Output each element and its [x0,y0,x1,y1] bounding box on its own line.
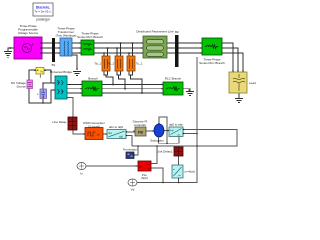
svg-text:(Two Windings): (Two Windings) [56,34,77,38]
svg-text:Voltage Source: Voltage Source [18,31,39,35]
svg-text:Series RLC Branch: Series RLC Branch [77,35,103,39]
svg-text:Branch: Branch [88,77,98,81]
svg-text:(2-Level): (2-Level) [88,124,100,128]
svg-text:Universal Bridge: Universal Bridge [50,70,72,74]
svg-text:B1: B1 [52,63,56,67]
svg-text:m: m [173,169,175,171]
svg-text:Unit Delay1: Unit Delay1 [157,150,173,154]
svg-text:In: In [80,172,83,176]
svg-text:Ta_1: Ta_1 [94,62,101,66]
svg-text:(3ph): (3ph) [141,176,148,180]
svg-text:m=f(ud): m=f(ud) [185,170,195,174]
svg-text:PID: PID [138,131,144,135]
svg-text:Saturation: Saturation [150,138,164,142]
svg-text:Series RLC Branch: Series RLC Branch [199,61,225,65]
svg-text:Load: Load [249,81,256,85]
svg-text:Source: Source [16,85,26,89]
svg-text:Tb_1: Tb_1 [107,62,114,66]
svg-text:abc to dq0: abc to dq0 [109,125,123,129]
svg-text:Terminator: Terminator [123,148,137,152]
svg-text:controller: controller [134,123,146,127]
svg-text:abc: abc [139,167,142,169]
svg-text:dq0 to abc: dq0 to abc [169,122,184,126]
svg-text:RLC Branch: RLC Branch [165,77,182,81]
svg-text:B2: B2 [175,30,179,34]
svg-text:powergui: powergui [37,18,50,22]
svg-text:Tc_1: Tc_1 [136,62,143,66]
svg-text:Ts = 5e-05 s.: Ts = 5e-05 s. [34,10,51,14]
svg-text:Line Delay: Line Delay [52,120,67,124]
svg-text:Vd: Vd [131,187,135,191]
svg-text:Distributed Parameters Line: Distributed Parameters Line [136,30,174,34]
